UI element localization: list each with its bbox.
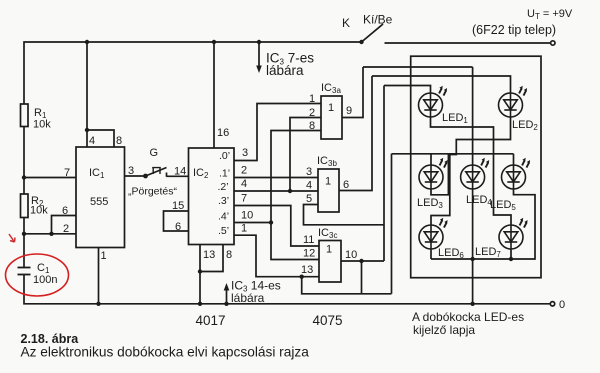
wire: IC1 pins 4/8 to +9V [86, 42, 88, 147]
svg-text:LED4: LED4 [466, 194, 492, 207]
svg-text:5: 5 [306, 193, 312, 205]
wire: IC3c output riser to LED1 [383, 86, 385, 262]
svg-text:3: 3 [242, 147, 248, 159]
node: IC3c output junction [359, 259, 363, 263]
LED3 [419, 158, 448, 189]
switch G arm [146, 168, 167, 177]
svg-text:13: 13 [301, 264, 313, 276]
wire: gate9 feed to LED4 [363, 66, 473, 68]
wire: IC1 pin 7 [24, 177, 76, 179]
capacitor C1 [18, 268, 31, 275]
svg-text:11: 11 [303, 234, 314, 246]
svg-text:LED7: LED7 [475, 246, 501, 259]
svg-text:4: 4 [241, 178, 247, 190]
svg-text:UT = +9V: UT = +9V [527, 8, 573, 21]
svg-text:4: 4 [306, 180, 312, 192]
svg-text:7: 7 [241, 193, 247, 205]
node: top rail junction to IC1 pins 4/8 [85, 40, 89, 44]
svg-text:IC3c: IC3c [318, 227, 337, 240]
wire: Q2 (pin 4) to IC3b pin 4 [234, 190, 318, 192]
battery + terminal [551, 41, 555, 45]
wire: IC2 pin 15 bracket [164, 211, 189, 231]
svg-text:„Pörgetés“: „Pörgetés“ [128, 186, 178, 198]
wire: Q4 (pin 10) to junction [234, 222, 271, 224]
svg-text:6: 6 [175, 221, 181, 233]
svg-text:555: 555 [90, 196, 108, 208]
wire: gate10 feed to LED1 [384, 86, 431, 94]
op IC2 4017 counter box [189, 148, 235, 245]
op IC3c OR gate box [319, 241, 341, 283]
wire: IC2 pin 16 to +9V [213, 42, 215, 148]
node: top rail junction IC3 pin7 note [257, 40, 261, 44]
wire: IC1 pin 2 [24, 233, 76, 235]
wire: IC2 pin 8 to pin 13 [200, 245, 223, 272]
svg-text:K: K [342, 16, 350, 30]
svg-text:6: 6 [62, 205, 68, 217]
node: switch G contact [143, 174, 148, 179]
wire: IC3b pin 5 feedback [304, 205, 385, 225]
wire: Q4 branch to IC3c pin 12 [271, 223, 319, 260]
LED7 [499, 218, 528, 249]
node: pin13/pin8 junction [198, 269, 202, 273]
svg-text:3: 3 [128, 165, 134, 177]
svg-text:2: 2 [309, 107, 315, 119]
resistor R2 [21, 194, 29, 218]
svg-text:LED3: LED3 [417, 197, 443, 210]
svg-text:0: 0 [559, 299, 565, 311]
svg-text:8: 8 [309, 120, 315, 132]
svg-text:A dobókocka LED-es: A dobókocka LED-es [412, 310, 524, 324]
wire: bus to 0V rail [472, 259, 474, 304]
wire: R2 to C1 [23, 218, 25, 268]
svg-text:IC3b: IC3b [317, 155, 337, 168]
wire: IC2 pin 13 to 0V [199, 245, 201, 304]
svg-text:LED2: LED2 [512, 119, 538, 132]
0V terminal [550, 302, 554, 306]
wire: Q2 branch to IC3a pin 2 [290, 118, 321, 192]
wire: LED3/LED5 riser [391, 154, 393, 294]
svg-text:3: 3 [306, 166, 312, 178]
svg-text:1: 1 [101, 250, 107, 262]
svg-text:1: 1 [309, 93, 315, 105]
LED6 [419, 218, 448, 249]
annotation red arrow [9, 234, 15, 242]
wire: LED3/LED5 feed line [392, 153, 514, 155]
wire: Q5 (pin 1) to IC3c pin 13 [234, 235, 319, 277]
switch K arm [362, 24, 384, 42]
svg-text:4075: 4075 [313, 313, 343, 328]
svg-text:13: 13 [203, 249, 215, 261]
svg-text:9: 9 [346, 105, 352, 117]
svg-text:1: 1 [241, 223, 247, 235]
wire: +9V top rail [24, 42, 362, 104]
arrow: to IC3 pin 14 [226, 288, 228, 304]
svg-text:.2’: .2’ [218, 181, 229, 193]
wire: branch down to LED5 [513, 154, 515, 166]
switch G right contact [166, 173, 168, 177]
wire: switch G to IC2 pin 14 [167, 175, 189, 177]
wire: rail from switch to battery terminal [385, 42, 551, 44]
LED5 [502, 158, 531, 189]
annotation red ellipse around C1 [6, 254, 69, 296]
svg-text:LED6: LED6 [438, 247, 464, 260]
svg-text:12: 12 [303, 248, 315, 260]
wire: IC1 pin 6 bracket [52, 216, 77, 234]
LED4 [461, 158, 490, 189]
wire: IC3c output 10 [341, 260, 384, 262]
svg-text:.0’: .0’ [219, 150, 230, 162]
svg-text:.1’: .1’ [219, 168, 230, 180]
node: Q2 branch junction [288, 189, 292, 193]
wire: branch down to LED3 [430, 154, 432, 166]
wire: LED4 anode drop [472, 67, 474, 166]
svg-text:Az elektronikus dobókocka elvi: Az elektronikus dobókocka elvi kapcsolás… [21, 345, 310, 360]
node: junction R1/R2/pin7 [22, 175, 26, 179]
svg-text:2: 2 [63, 223, 69, 235]
node: pin13 on 0V rail [198, 302, 202, 306]
svg-text:6: 6 [343, 179, 349, 191]
wire: Q4 branch to IC3a pin 8 [271, 131, 321, 223]
wire: LED2 cathode chain [431, 117, 511, 226]
svg-text:4: 4 [89, 135, 95, 147]
wire: LED7 cathode [510, 249, 512, 260]
wire: LED cathode bus [431, 258, 511, 260]
wire: C1 to 0V rail [24, 275, 552, 304]
wire: LED4 cathode drop [472, 189, 474, 260]
node: pin1 on 0V rail [96, 302, 100, 306]
node: LED4 on bus [470, 257, 474, 261]
svg-text:4017: 4017 [196, 313, 226, 328]
arrow: to IC3 pin 7 [258, 42, 260, 68]
wire: Q1 (pin 2) to IC3b pin 3 [234, 177, 318, 179]
svg-text:lábára: lábára [231, 291, 265, 305]
svg-text:.4’: .4’ [218, 211, 229, 223]
switch K contact dot [359, 40, 363, 44]
svg-text:2: 2 [241, 165, 247, 177]
svg-text:10k: 10k [30, 205, 48, 217]
node: Q4 branch junction [269, 220, 273, 224]
svg-text:.5’: .5’ [218, 225, 229, 237]
svg-text:LED5: LED5 [490, 199, 516, 212]
svg-text:14: 14 [174, 166, 186, 178]
svg-text:15: 15 [172, 200, 184, 212]
node: junction pin2/pin6 bracket [49, 232, 53, 236]
svg-text:IC1: IC1 [89, 167, 105, 180]
LED display board outline [411, 56, 541, 278]
node: junction R2/C1/pin2 [22, 232, 26, 236]
wire: IC1 pin 3 to switch G [125, 175, 147, 177]
svg-text:LED1: LED1 [442, 112, 468, 125]
wire: gate6 feed to LED2 [372, 76, 511, 94]
svg-text:lábára: lábára [266, 63, 304, 78]
wire: LED6 cathode [430, 249, 432, 260]
svg-text:1: 1 [326, 244, 332, 256]
svg-text:G: G [150, 147, 159, 159]
svg-text:16: 16 [217, 127, 229, 139]
node: Q5 branch junction [300, 275, 304, 279]
svg-text:Kí/Be: Kí/Be [363, 13, 393, 27]
wire: LED5 cathode wrap [511, 189, 535, 260]
op IC1 555 timer box [76, 147, 125, 248]
wire: IC3b output 6 riser [339, 76, 372, 191]
svg-text:7: 7 [64, 167, 70, 179]
switch G actuator [152, 168, 161, 174]
wire: Q5 branch to LED3/LED5 riser [302, 277, 392, 294]
node: IC3 pin14 note on rail [224, 302, 228, 306]
wire: R1 to pin7 node [23, 127, 25, 195]
svg-text:.3’: .3’ [218, 195, 229, 207]
wire: Q0 (pin 3) to IC3a pin 1 [234, 104, 321, 161]
svg-text:10: 10 [241, 210, 253, 222]
node: bus on 0V rail [470, 302, 474, 306]
wire: LED3 cathode stub [431, 154, 448, 195]
node: LED7 on bus [509, 257, 513, 261]
wire: IC1 pin 1 to 0V [98, 248, 100, 304]
op IC3a OR gate box [321, 96, 342, 139]
wire: IC3c output down branch [361, 261, 363, 294]
svg-text:1: 1 [325, 176, 331, 188]
LED2 [499, 86, 528, 117]
svg-text:1: 1 [328, 102, 334, 114]
svg-text:8: 8 [226, 249, 232, 261]
svg-text:8: 8 [116, 135, 122, 147]
op IC3b OR gate box [318, 169, 339, 212]
svg-text:10k: 10k [33, 119, 51, 131]
LED1 [419, 86, 448, 117]
svg-text:(6F22 tip telep): (6F22 tip telep) [472, 23, 556, 37]
wire: Q3 (pin 7) to IC3c pin 11 [234, 206, 319, 247]
resistor R1 [21, 104, 29, 127]
wire: LED1 cathode to LED7 anode [431, 117, 512, 226]
wire: pin 8 bracket [87, 130, 114, 147]
svg-text:10: 10 [345, 249, 357, 261]
svg-text:kijelző lapja: kijelző lapja [413, 323, 475, 337]
svg-text:IC3a: IC3a [321, 82, 341, 95]
node: top rail junction to IC2 pin 16 [212, 40, 216, 44]
svg-text:IC2: IC2 [193, 167, 209, 180]
node: pin4/8 bracket junction [85, 128, 89, 132]
svg-text:100n: 100n [33, 274, 57, 286]
wire: IC3a output 9 riser [342, 67, 363, 118]
